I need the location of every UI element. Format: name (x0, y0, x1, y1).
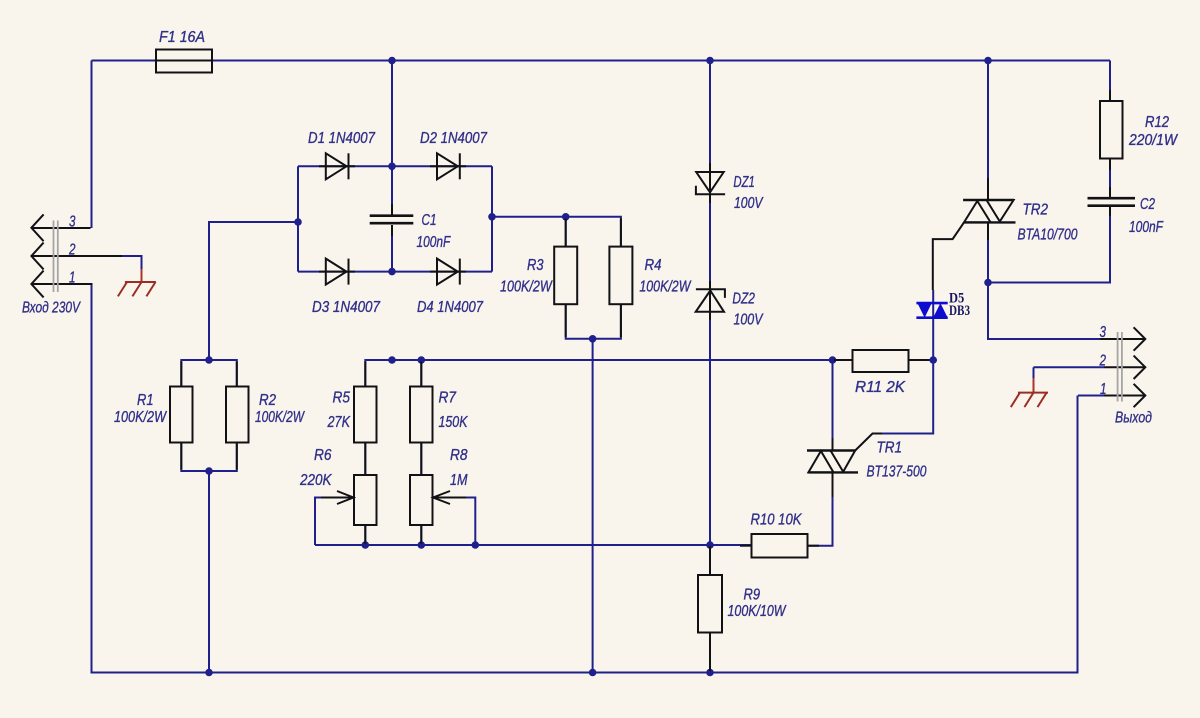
svg-text:D3 1N4007: D3 1N4007 (312, 299, 381, 316)
svg-text:100V: 100V (734, 195, 764, 212)
svg-text:150K: 150K (439, 414, 469, 431)
resistor R12 (1100, 101, 1123, 159)
diode D4 (430, 259, 466, 285)
wire gate bus y545 (315, 544, 752, 546)
node gate bus / DZ chain / R9 (706, 541, 714, 549)
connector input shield lines (54, 221, 58, 293)
zener DZ1 (696, 163, 725, 203)
node R8 wiper to bus (472, 541, 480, 549)
node bottom rail R9 (706, 669, 714, 677)
connector output pin 2 (1104, 356, 1145, 379)
node D3-D4 junction (388, 268, 396, 276)
svg-text:BT137-500: BT137-500 (867, 464, 927, 481)
svg-text:1M: 1M (450, 472, 468, 489)
potentiometer R8 (410, 475, 466, 525)
node R3R4 bottom (589, 335, 597, 343)
svg-text:F1 16A: F1 16A (159, 29, 205, 46)
node TR2 output (984, 279, 992, 287)
wire R12 to C2 (1109, 159, 1111, 198)
wire input pin3 to fuse (vertical riser) (91, 61, 93, 229)
triac TR2 (933, 178, 1016, 290)
node top rail / bridge feed (388, 57, 396, 65)
node top rail / DZ1 branch (706, 57, 714, 65)
wire R9 bottom lead (709, 633, 711, 673)
svg-text:BTA10/700: BTA10/700 (1018, 227, 1078, 244)
node TR1 anode tap (829, 356, 837, 364)
svg-text:100nF: 100nF (417, 234, 452, 251)
svg-text:100nF: 100nF (1129, 219, 1164, 236)
wire bridge center vertical (top rail to D1-D2 row) (391, 61, 393, 167)
svg-text:D4 1N4007: D4 1N4007 (417, 299, 484, 316)
svg-text:100V: 100V (734, 312, 764, 329)
svg-text:Выход: Выход (1115, 409, 1152, 426)
resistor R5 (354, 387, 377, 443)
connector input pin 2 (31, 243, 141, 271)
wire DZ1 to DZ2 (709, 195, 711, 290)
lead stubs R10 (black) (740, 545, 819, 547)
resistor R10 (752, 534, 808, 558)
node bridge left tap (294, 218, 302, 226)
resistor R9 (698, 575, 722, 633)
wire node down to TR1 gate lead (873, 360, 934, 434)
triac TR1 (807, 434, 882, 498)
ground output (1011, 367, 1048, 407)
node bridge output (488, 213, 496, 221)
svg-text:R12: R12 (1145, 114, 1169, 131)
wire R5-R6 link (364, 443, 366, 476)
diac D5 (916, 303, 947, 318)
diode D1 (319, 153, 355, 179)
node bridge center to bus (388, 356, 396, 364)
svg-text:DZ1: DZ1 (733, 174, 755, 191)
svg-text:Вход 230V: Вход 230V (22, 300, 81, 317)
wire C1 link vertical (391, 166, 393, 213)
svg-text:R2: R2 (259, 392, 276, 409)
wire output pin2 feed (1034, 366, 1105, 368)
wire R7-R8 link (420, 443, 422, 476)
potentiometer R6 (321, 475, 377, 525)
wire R3R4 bottom to bottom rail (592, 339, 594, 673)
wire output pin1 feed (1078, 395, 1104, 397)
wire DZ1 top lead (709, 61, 711, 173)
wire DZ2 to gate bus (709, 312, 711, 545)
wire R6 bottom lead (364, 525, 366, 545)
lead stubs R1 R2 (black) (181, 362, 237, 470)
svg-text:27K: 27K (327, 414, 351, 431)
svg-text:100K/10W: 100K/10W (728, 603, 787, 620)
node bottom rail R1R2 (205, 669, 213, 677)
connector input pin 1 (31, 271, 92, 298)
svg-text:100K/2W: 100K/2W (500, 278, 553, 295)
capacitor C1 (370, 204, 414, 236)
svg-text:D2 1N4007: D2 1N4007 (420, 130, 488, 147)
wire R7 top lead (420, 360, 422, 387)
node R7 top tap (418, 356, 426, 364)
svg-text:2: 2 (68, 242, 75, 259)
capacitor C2 (1088, 187, 1136, 216)
wire bridge output to R3R4 top bar (492, 217, 621, 247)
wire C1 to D3-D4 row (391, 226, 393, 272)
svg-text:TR1: TR1 (877, 440, 903, 457)
ground input (118, 269, 156, 296)
svg-text:R6: R6 (314, 447, 332, 464)
wire R6 wiper loop (315, 498, 323, 546)
svg-text:R8: R8 (450, 447, 468, 464)
svg-text:100K/2W: 100K/2W (639, 278, 691, 295)
node D1-D2 junction (388, 163, 396, 171)
node bottom rail R3R4 (589, 669, 597, 677)
svg-text:1: 1 (69, 270, 76, 287)
zener DZ2 (696, 281, 725, 320)
svg-text:R10 10K: R10 10K (751, 512, 803, 529)
svg-text:C1: C1 (422, 212, 437, 229)
lead stubs R3 R4 (black) (566, 219, 621, 338)
wire TR2 bottom lead (988, 222, 1100, 339)
resistor R1 (170, 387, 193, 443)
node R11 / D5 / TR1 gate (929, 356, 937, 364)
svg-text:100K/2W: 100K/2W (255, 409, 305, 426)
node R6 bottom (362, 541, 370, 549)
connector output shield lines (1118, 332, 1122, 402)
wire bridge left vertical (297, 166, 299, 271)
svg-text:100K/2W: 100K/2W (114, 409, 168, 426)
svg-text:1: 1 (1100, 381, 1107, 398)
wire R12 top lead (1109, 61, 1111, 102)
connector output pin 3 (1100, 327, 1145, 350)
wire R1R2 top bar (181, 360, 237, 387)
svg-text:220/1W: 220/1W (1128, 132, 1179, 149)
wire bridge left tap to R1R2 riser (209, 222, 298, 360)
wire top mains rail (92, 60, 1111, 62)
resistor R11 (853, 350, 909, 372)
svg-text:R5: R5 (333, 390, 351, 407)
node R1R2 bottom (205, 467, 213, 475)
wire R8 wiper loop (464, 498, 475, 546)
wire R11 right lead to D5 column (909, 359, 934, 361)
svg-text:3: 3 (69, 214, 76, 231)
wire R8 bottom lead (420, 525, 422, 545)
svg-text:C2: C2 (1140, 196, 1155, 213)
svg-text:D1 1N4007: D1 1N4007 (308, 130, 376, 147)
svg-text:220K: 220K (299, 472, 332, 489)
wire TR1 cathode to R10 (808, 472, 833, 545)
svg-text:R1: R1 (137, 392, 154, 409)
lead stubs R9 (black) (709, 547, 711, 672)
resistor R7 (410, 387, 433, 443)
wire R1R2 bottom bar (181, 443, 237, 472)
wire control bus y360 (365, 360, 852, 387)
wire bottom rail (92, 284, 1078, 673)
wire C2 bottom to TR2 output (988, 206, 1110, 283)
node R8 bottom (418, 541, 426, 549)
wire bridge bottom row (298, 271, 492, 273)
svg-text:2: 2 (1099, 353, 1106, 370)
wire R3 top lead (565, 217, 567, 247)
fuse F1 (156, 50, 212, 73)
svg-text:TR2: TR2 (1023, 202, 1049, 219)
svg-text:R7: R7 (439, 390, 457, 407)
wire R1R2 to bottom rail (208, 471, 210, 673)
svg-text:DB3: DB3 (949, 303, 970, 319)
diode D3 (319, 259, 355, 285)
resistor R3 (554, 247, 577, 305)
wire bridge top row (298, 165, 492, 167)
wire TR2 top lead (987, 61, 989, 201)
node R3 top tap (562, 213, 570, 221)
svg-text:3: 3 (1100, 324, 1107, 341)
wire R9 top lead (709, 545, 711, 575)
svg-text:DZ2: DZ2 (732, 290, 755, 307)
connector output pin 1 (1104, 384, 1145, 407)
wire bridge right vertical (491, 166, 493, 271)
wire TR1 anode (top) (832, 360, 834, 451)
lead stubs R11 (black) (834, 359, 929, 361)
wire D5 bottom to node (932, 290, 934, 360)
svg-text:R11 2K: R11 2K (855, 379, 906, 396)
diode D2 (430, 153, 466, 179)
resistor R4 (609, 247, 632, 305)
svg-text:R3: R3 (527, 257, 544, 274)
resistor R2 (226, 387, 249, 443)
svg-text:R4: R4 (645, 257, 662, 274)
wire R3R4 bottom bar (566, 304, 621, 339)
connector input pin 3 (31, 214, 90, 241)
lead stubs R5 R7 (black) (365, 362, 421, 544)
lead stubs R12 (black) (1109, 90, 1111, 170)
svg-text:R9: R9 (744, 587, 761, 604)
node R1R2 top (205, 356, 213, 364)
node top rail / TR2 branch (984, 57, 992, 65)
